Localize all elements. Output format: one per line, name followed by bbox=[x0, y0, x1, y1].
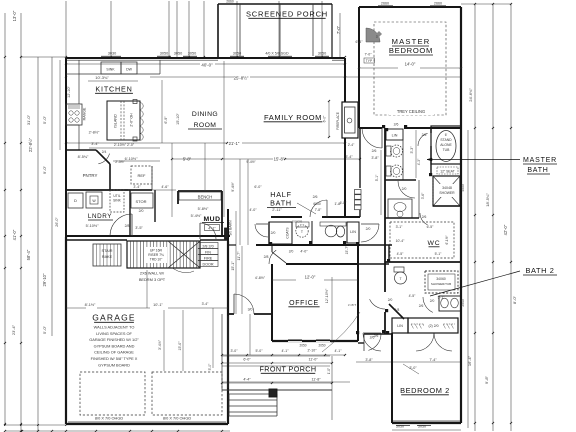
svg-text:3'-8": 3'-8" bbox=[365, 358, 373, 362]
svg-text:¼"/FT: ¼"/FT bbox=[348, 303, 356, 307]
svg-text:3050: 3050 bbox=[160, 52, 168, 56]
svg-text:6'-0": 6'-0" bbox=[323, 115, 327, 123]
svg-text:COATS: COATS bbox=[286, 227, 290, 239]
svg-text:BENCH: BENCH bbox=[198, 195, 213, 200]
svg-text:2'-4": 2'-4" bbox=[348, 143, 355, 147]
svg-text:6'-10½": 6'-10½" bbox=[125, 157, 138, 161]
svg-text:LNDRY: LNDRY bbox=[88, 213, 112, 220]
svg-text:BEDRM 3 OPT: BEDRM 3 OPT bbox=[139, 277, 166, 282]
svg-text:2660: 2660 bbox=[226, 0, 234, 4]
svg-text:4'-6": 4'-6" bbox=[161, 185, 169, 189]
svg-text:SINK: SINK bbox=[113, 199, 121, 203]
svg-text:7'-0": 7'-0" bbox=[336, 25, 341, 34]
svg-text:21'-1": 21'-1" bbox=[229, 141, 240, 146]
svg-text:KITCHEN: KITCHEN bbox=[95, 85, 132, 94]
svg-text:2/6: 2/6 bbox=[422, 215, 427, 219]
svg-text:3050: 3050 bbox=[188, 52, 196, 56]
svg-text:PNTRY: PNTRY bbox=[83, 173, 98, 178]
svg-text:6'-0": 6'-0" bbox=[243, 358, 251, 362]
svg-text:3': 3' bbox=[376, 35, 379, 39]
svg-text:8/0 X 7/0 OHGD: 8/0 X 7/0 OHGD bbox=[95, 416, 124, 421]
svg-text:WC: WC bbox=[428, 240, 441, 247]
svg-text:13'-0": 13'-0" bbox=[12, 10, 17, 21]
svg-text:UP 16R: UP 16R bbox=[150, 249, 163, 253]
svg-text:RAKE: RAKE bbox=[102, 255, 113, 259]
svg-text:DOOR: DOOR bbox=[202, 262, 213, 266]
svg-text:2/0: 2/0 bbox=[366, 227, 371, 231]
svg-text:GYPSUM BOARD: GYPSUM BOARD bbox=[98, 362, 130, 367]
svg-text:MASTER: MASTER bbox=[392, 37, 431, 46]
svg-text:3'-0": 3'-0" bbox=[231, 349, 239, 353]
svg-text:12'-10": 12'-10" bbox=[67, 85, 71, 97]
svg-text:2'-10½" 2'-0": 2'-10½" 2'-0" bbox=[114, 143, 135, 147]
svg-text:2/0: 2/0 bbox=[430, 299, 435, 303]
svg-text:LIN: LIN bbox=[392, 134, 398, 138]
svg-text:2040: 2040 bbox=[461, 299, 465, 307]
svg-text:5'-8": 5'-8" bbox=[183, 157, 192, 162]
svg-text:5'-0": 5'-0" bbox=[42, 325, 47, 334]
svg-text:42'-0": 42'-0" bbox=[503, 224, 508, 235]
svg-text:WALLS ADJACENT TO: WALLS ADJACENT TO bbox=[94, 325, 135, 330]
svg-text:8/0 X 7/0 OHGD: 8/0 X 7/0 OHGD bbox=[163, 416, 192, 421]
svg-text:BEDROOM 2: BEDROOM 2 bbox=[400, 386, 450, 395]
svg-text:STOR: STOR bbox=[135, 199, 146, 204]
svg-text:5'-1": 5'-1" bbox=[435, 252, 443, 256]
svg-text:10'-4": 10'-4" bbox=[396, 239, 405, 243]
svg-text:8'-5¾": 8'-5¾" bbox=[78, 155, 89, 159]
svg-text:15'-1": 15'-1" bbox=[231, 261, 235, 271]
svg-text:D: D bbox=[74, 198, 77, 203]
svg-text:15'-8": 15'-8" bbox=[274, 157, 285, 162]
svg-text:4'-3": 4'-3" bbox=[417, 158, 421, 165]
svg-text:LIN: LIN bbox=[350, 230, 356, 234]
svg-text:3'-4½": 3'-4½" bbox=[158, 339, 162, 350]
svg-text:FIN: FIN bbox=[205, 250, 211, 254]
svg-text:GARAGE: GARAGE bbox=[92, 313, 136, 323]
svg-text:15'-10": 15'-10" bbox=[176, 112, 180, 124]
svg-text:2/0: 2/0 bbox=[388, 298, 393, 302]
svg-text:4/0 X 5/0 SGD: 4/0 X 5/0 SGD bbox=[265, 52, 289, 56]
svg-text:5'-10½": 5'-10½" bbox=[86, 224, 99, 228]
svg-text:UTIL: UTIL bbox=[113, 194, 120, 198]
svg-text:3'-0": 3'-0" bbox=[409, 366, 417, 370]
svg-text:BATH: BATH bbox=[270, 199, 292, 208]
svg-text:RISER 7¾: RISER 7¾ bbox=[148, 253, 164, 257]
svg-text:2050: 2050 bbox=[299, 344, 306, 348]
svg-text:SINK: SINK bbox=[106, 68, 115, 72]
svg-text:TRD 10": TRD 10" bbox=[150, 258, 163, 262]
svg-text:ISLAND: ISLAND bbox=[114, 114, 118, 128]
svg-text:15'-7": 15'-7" bbox=[345, 245, 349, 254]
svg-text:10'-1": 10'-1" bbox=[153, 303, 163, 307]
svg-text:6'-4": 6'-4" bbox=[356, 40, 364, 44]
svg-text:TYP: TYP bbox=[366, 59, 373, 63]
svg-text:4'-5": 4'-5" bbox=[409, 294, 417, 298]
svg-text:DINING: DINING bbox=[192, 111, 218, 118]
svg-text:5'-4½": 5'-4½" bbox=[191, 214, 202, 218]
svg-text:TUB: TUB bbox=[443, 148, 451, 152]
svg-text:7'-4": 7'-4" bbox=[429, 358, 437, 362]
svg-text:SHOWER: SHOWER bbox=[439, 191, 455, 195]
svg-text:OFFICE: OFFICE bbox=[289, 300, 319, 307]
svg-text:STAIR: STAIR bbox=[102, 249, 113, 253]
svg-text:LIN: LIN bbox=[397, 324, 403, 328]
svg-text:5'-0": 5'-0" bbox=[208, 363, 212, 371]
svg-text:6'-0": 6'-0" bbox=[254, 185, 262, 189]
svg-text:6': 6' bbox=[445, 133, 448, 137]
svg-text:3'-8": 3'-8" bbox=[371, 156, 379, 160]
svg-text:5'-1": 5'-1" bbox=[375, 174, 379, 181]
svg-text:2/4: 2/4 bbox=[102, 150, 107, 154]
svg-text:CEILING OF GARAGE: CEILING OF GARAGE bbox=[94, 350, 134, 355]
svg-text:STAND: STAND bbox=[440, 138, 452, 142]
svg-text:41'-0": 41'-0" bbox=[12, 229, 17, 240]
svg-text:2X6 WALL W/: 2X6 WALL W/ bbox=[140, 271, 165, 276]
svg-text:3'-3": 3'-3" bbox=[410, 146, 414, 154]
svg-text:15'-0": 15'-0" bbox=[178, 341, 182, 351]
svg-text:25'-8½": 25'-8½" bbox=[234, 76, 249, 81]
svg-text:3/0: 3/0 bbox=[248, 308, 253, 312]
svg-text:6'-5": 6'-5" bbox=[427, 225, 435, 229]
svg-text:(2) 2/0: (2) 2/0 bbox=[428, 324, 438, 328]
svg-text:4'-0": 4'-0" bbox=[300, 250, 308, 254]
svg-text:2/6: 2/6 bbox=[374, 334, 379, 338]
svg-text:2/8: 2/8 bbox=[264, 255, 269, 259]
svg-text:5'-8½": 5'-8½" bbox=[198, 207, 209, 211]
svg-text:2/0: 2/0 bbox=[402, 187, 407, 191]
svg-text:MUD: MUD bbox=[204, 216, 221, 223]
svg-text:BATH: BATH bbox=[527, 167, 548, 174]
svg-text:2660: 2660 bbox=[381, 2, 389, 6]
svg-text:MASTER: MASTER bbox=[523, 157, 557, 164]
svg-text:2'-0" OH: 2'-0" OH bbox=[130, 113, 134, 127]
svg-text:4'-1": 4'-1" bbox=[335, 349, 343, 353]
svg-text:2/6: 2/6 bbox=[313, 195, 318, 199]
svg-text:26'-0": 26'-0" bbox=[55, 217, 59, 227]
svg-text:3'-4": 3'-4" bbox=[133, 185, 141, 189]
svg-text:T: T bbox=[399, 277, 401, 281]
svg-text:RANGE: RANGE bbox=[83, 107, 87, 120]
svg-text:10'-3¾": 10'-3¾" bbox=[95, 75, 109, 80]
svg-text:24'-6¾": 24'-6¾" bbox=[468, 88, 473, 102]
svg-text:1/8: 1/8 bbox=[395, 308, 400, 312]
svg-text:SHOWER/TUB: SHOWER/TUB bbox=[431, 282, 451, 286]
svg-text:11'-7": 11'-7" bbox=[237, 251, 241, 261]
svg-text:1'-0": 1'-0" bbox=[327, 368, 331, 374]
svg-text:2/0: 2/0 bbox=[271, 231, 276, 235]
svg-text:22'-8½": 22'-8½" bbox=[28, 137, 33, 152]
svg-text:6'0X2'0: 6'0X2'0 bbox=[292, 220, 302, 224]
svg-text:TREY CEILING: TREY CEILING bbox=[397, 109, 425, 114]
svg-text:ALONE: ALONE bbox=[440, 143, 452, 147]
svg-text:2'-11": 2'-11" bbox=[272, 208, 282, 212]
svg-text:4'-1": 4'-1" bbox=[282, 349, 290, 353]
svg-text:5'-0": 5'-0" bbox=[256, 349, 264, 353]
svg-text:GARAGE FINISHED W/ 1/2": GARAGE FINISHED W/ 1/2" bbox=[89, 337, 139, 342]
svg-text:11'-0": 11'-0" bbox=[308, 358, 318, 362]
svg-text:3'-6": 3'-6" bbox=[421, 192, 425, 199]
svg-text:3'-4": 3'-4" bbox=[202, 302, 210, 306]
svg-text:5'-0": 5'-0" bbox=[42, 115, 47, 124]
svg-text:2050: 2050 bbox=[318, 344, 325, 348]
svg-text:FIREPLACE: FIREPLACE bbox=[336, 112, 340, 130]
svg-text:BEDROOM: BEDROOM bbox=[389, 46, 433, 55]
svg-text:2/0: 2/0 bbox=[289, 250, 294, 254]
svg-text:4'-4": 4'-4" bbox=[243, 378, 251, 382]
svg-text:3'-4": 3'-4" bbox=[91, 142, 99, 146]
svg-text:9'-4½": 9'-4½" bbox=[231, 181, 235, 191]
svg-text:34X48: 34X48 bbox=[442, 186, 452, 190]
svg-text:2'-8½": 2'-8½" bbox=[89, 131, 100, 135]
svg-text:FAMILY ROOM: FAMILY ROOM bbox=[264, 113, 322, 122]
svg-text:4050: 4050 bbox=[461, 184, 465, 192]
svg-text:FRONT PORCH: FRONT PORCH bbox=[260, 365, 317, 374]
svg-text:3050: 3050 bbox=[233, 52, 241, 56]
svg-text:SCREENED PORCH: SCREENED PORCH bbox=[246, 10, 328, 19]
svg-text:3'-5": 3'-5" bbox=[135, 226, 143, 230]
svg-text:2/6: 2/6 bbox=[422, 133, 427, 137]
svg-text:1'-8": 1'-8" bbox=[340, 201, 347, 205]
svg-text:GYPSUM BOARD AND: GYPSUM BOARD AND bbox=[94, 343, 135, 348]
svg-text:FINISHED W/ 5/8" TYPE X: FINISHED W/ 5/8" TYPE X bbox=[91, 356, 138, 361]
svg-text:29'-10": 29'-10" bbox=[42, 273, 47, 287]
svg-text:4'-0": 4'-0" bbox=[249, 208, 257, 212]
svg-text:2'-5½": 2'-5½" bbox=[115, 160, 125, 164]
svg-text:11'-8": 11'-8" bbox=[311, 378, 321, 382]
svg-text:2/6: 2/6 bbox=[394, 123, 399, 127]
svg-text:2/0: 2/0 bbox=[139, 209, 144, 213]
svg-text:LIVING SPACES OF: LIVING SPACES OF bbox=[96, 331, 132, 336]
svg-text:7'-0": 7'-0" bbox=[365, 53, 373, 57]
svg-text:3050: 3050 bbox=[318, 52, 326, 56]
svg-text:31'-0": 31'-0" bbox=[26, 114, 31, 125]
svg-text:2/6: 2/6 bbox=[419, 304, 424, 308]
svg-text:2660: 2660 bbox=[434, 2, 442, 6]
svg-text:18'-5¼": 18'-5¼" bbox=[485, 193, 490, 207]
svg-text:3/0 BARN: 3/0 BARN bbox=[229, 220, 233, 236]
svg-text:40'-0": 40'-0" bbox=[201, 63, 213, 68]
svg-text:3'-4": 3'-4" bbox=[345, 155, 353, 159]
svg-text:8'-1½": 8'-1½" bbox=[85, 303, 96, 307]
svg-text:6'-1½": 6'-1½" bbox=[445, 235, 449, 244]
svg-text:12'-10½": 12'-10½" bbox=[325, 288, 329, 303]
svg-text:2/8 2/0: 2/8 2/0 bbox=[202, 244, 213, 248]
svg-text:7'-8": 7'-8" bbox=[315, 208, 322, 212]
svg-text:4'-5": 4'-5" bbox=[397, 252, 405, 256]
svg-text:12" SEAT: 12" SEAT bbox=[440, 169, 455, 173]
svg-text:3050: 3050 bbox=[174, 52, 182, 56]
svg-text:4'-8½": 4'-8½" bbox=[255, 276, 266, 280]
svg-text:3030: 3030 bbox=[108, 52, 116, 56]
svg-text:58'-4": 58'-4" bbox=[26, 249, 31, 260]
svg-text:2/8: 2/8 bbox=[125, 224, 130, 228]
svg-text:12'-0": 12'-0" bbox=[305, 275, 316, 280]
svg-text:8'-0": 8'-0" bbox=[512, 295, 517, 304]
svg-text:DW: DW bbox=[126, 68, 133, 72]
svg-text:REF: REF bbox=[138, 173, 147, 178]
svg-text:3'-1": 3'-1" bbox=[396, 225, 404, 229]
svg-text:2'-10": 2'-10" bbox=[308, 349, 318, 353]
svg-text:23'-4": 23'-4" bbox=[11, 324, 16, 335]
svg-text:6'-9": 6'-9" bbox=[164, 116, 168, 124]
svg-text:34X60: 34X60 bbox=[436, 277, 446, 281]
svg-text:2/6: 2/6 bbox=[372, 149, 377, 153]
svg-text:BATH 2: BATH 2 bbox=[526, 266, 555, 275]
svg-text:9'-0": 9'-0" bbox=[42, 165, 47, 174]
svg-text:14'-0": 14'-0" bbox=[405, 62, 416, 67]
svg-text:16'-4": 16'-4" bbox=[467, 355, 472, 366]
svg-text:9'-8": 9'-8" bbox=[484, 375, 489, 384]
svg-text:FIRE: FIRE bbox=[204, 256, 213, 260]
svg-text:ROOM: ROOM bbox=[194, 122, 217, 129]
